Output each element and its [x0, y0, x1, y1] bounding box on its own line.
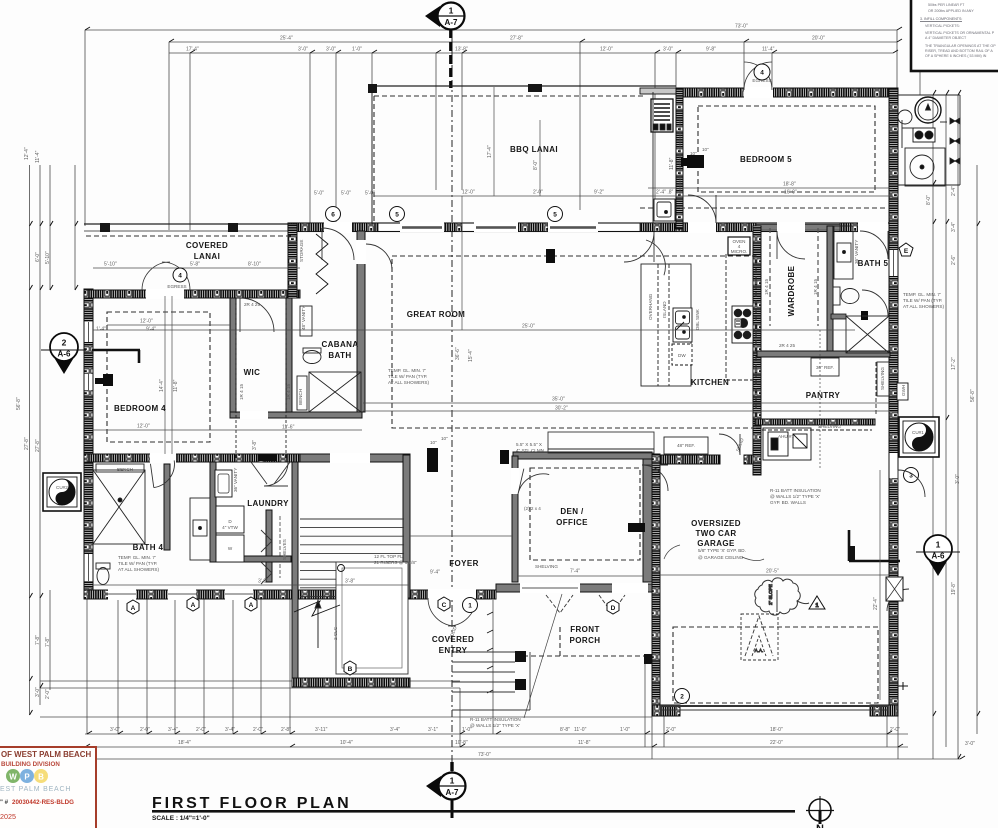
- svg-text:2: 2: [680, 694, 684, 701]
- svg-text:SHELVES: SHELVES: [282, 539, 287, 560]
- bath4 dim: [93, 584, 410, 586]
- section marker 1/A-6 right: [849, 530, 960, 576]
- section marker 1/A-7 top: [425, 3, 465, 30]
- svg-text:4: 4: [760, 70, 764, 77]
- svg-text:12'-0": 12'-0": [140, 319, 153, 325]
- oven/micro cabinet: [728, 237, 750, 255]
- cabana shower: [309, 372, 361, 412]
- storage west wall: [288, 224, 297, 298]
- bath5 bottom wall: [757, 351, 890, 357]
- entry door opening: [428, 589, 476, 600]
- dw: [672, 344, 692, 365]
- mud bench: [548, 432, 654, 453]
- svg-text:8'-8": 8'-8": [560, 727, 570, 733]
- door arc hall2: [637, 240, 672, 275]
- svg-text:6'-0": 6'-0": [35, 252, 41, 262]
- porch door swing V left: [546, 595, 573, 613]
- left exterior wall: [84, 289, 93, 598]
- kitchen verticals: [819, 330, 821, 470]
- door arc den: [518, 469, 549, 500]
- right wall H mark: [898, 685, 908, 687]
- stair newel: [338, 565, 345, 572]
- svg-text:22'-4": 22'-4": [873, 597, 879, 610]
- svg-text:5: 5: [553, 212, 557, 219]
- garage dim 22-4 vertical: [879, 470, 881, 700]
- bedroom5 vert dims: [539, 120, 541, 196]
- covered entry front wall: [410, 590, 496, 599]
- svg-text:11'-4": 11'-4": [762, 47, 775, 53]
- svg-text:E: E: [904, 248, 909, 255]
- bbq lanai post2: [528, 84, 542, 92]
- mech equipment: pool heater: [915, 97, 941, 123]
- svg-text:OR 200lbs APPLIED IN ANY: OR 200lbs APPLIED IN ANY: [928, 9, 974, 13]
- svg-text:4" VTW: 4" VTW: [222, 525, 238, 530]
- svg-text:TEMP. GL. MIN. 7': TEMP. GL. MIN. 7': [118, 555, 156, 560]
- door arc front entry doors: [428, 598, 476, 626]
- bottom dim row3 73-0: [85, 758, 960, 760]
- svg-text:(2) 2 x 4: (2) 2 x 4: [524, 506, 541, 511]
- svg-text:2025: 2025: [0, 812, 16, 821]
- svg-text:3'-11": 3'-11": [315, 727, 328, 733]
- stair treads upper run: [300, 519, 404, 562]
- mid wall opening hall: [330, 453, 370, 463]
- bottom dim row1: [85, 733, 908, 735]
- svg-text:2 CLG: 2 CLG: [333, 626, 338, 640]
- svg-text:12'-0": 12'-0": [600, 47, 613, 53]
- svg-text:A: A: [249, 602, 254, 609]
- svg-text:11'-8": 11'-8": [173, 379, 179, 392]
- hex tag A1: [127, 600, 139, 614]
- garage door header dashed: [673, 627, 878, 703]
- window tag 5a: [390, 207, 405, 222]
- svg-text:11'-8": 11'-8": [578, 740, 591, 746]
- laundry double doors: [251, 462, 290, 484]
- svg-text:10": 10": [441, 436, 448, 441]
- den top wall: [513, 452, 652, 459]
- bedroom4 ceiling: [107, 312, 210, 442]
- svg-text:A 4" DIAMETER OBJECT: A 4" DIAMETER OBJECT: [925, 36, 967, 40]
- svg-text:5: 5: [395, 212, 399, 219]
- mid wall opening bath4 door: [150, 453, 176, 463]
- svg-text:THE TRIANGULAR OPENINGS AT THE: THE TRIANGULAR OPENINGS AT THE OP: [925, 44, 996, 48]
- svg-text:2'-4": 2'-4": [951, 186, 957, 196]
- svg-text:5.5" X 5.5" X: 5.5" X 5.5" X: [516, 442, 542, 447]
- svg-text:56'-8": 56'-8": [16, 397, 22, 410]
- svg-text:30'-2": 30'-2": [555, 406, 568, 412]
- 35-0 line: [363, 402, 890, 404]
- door arc bath5: [860, 231, 888, 259]
- svg-text:2'-0": 2'-0": [196, 727, 206, 733]
- lanai post 2: [228, 223, 238, 232]
- outdoor kitchen back wall: [640, 88, 676, 94]
- wic south wall: [230, 412, 362, 418]
- svg-text:EGRESS: EGRESS: [167, 284, 186, 289]
- bedroom5 top wall: [676, 88, 898, 97]
- laundry tub: [215, 470, 232, 497]
- svg-text:1R 4 15: 1R 4 15: [239, 383, 244, 400]
- cu symbol left: [43, 473, 81, 511]
- revision triangle 1: [809, 596, 825, 609]
- svg-text:1: 1: [468, 603, 472, 610]
- bottom-left exterior wall (bath4): [84, 590, 410, 599]
- svg-text:LAUNDRY: LAUNDRY: [247, 499, 289, 508]
- svg-text:3'-4": 3'-4": [225, 727, 235, 733]
- svg-text:@ WALLS 1/2" TYPE 'X': @ WALLS 1/2" TYPE 'X': [770, 494, 820, 499]
- svg-text:SCALE : 1/4"=1'-0": SCALE : 1/4"=1'-0": [152, 815, 210, 822]
- den right wall: [643, 459, 652, 582]
- svg-text:CABANA: CABANA: [321, 340, 358, 349]
- svg-text:SHELVING: SHELVING: [880, 367, 885, 390]
- svg-text:ISLAND: ISLAND: [662, 301, 667, 318]
- laundry closet shelf dash: [279, 516, 281, 578]
- svg-text:COVERED: COVERED: [186, 241, 228, 250]
- laundry south wall: [216, 556, 291, 562]
- dimension extension verticals top: [85, 30, 920, 759]
- svg-text:11'-4": 11'-4": [35, 150, 41, 163]
- svg-text:7'-8": 7'-8": [35, 635, 41, 645]
- shelving closet right: [877, 362, 889, 396]
- svg-text:48" REF.: 48" REF.: [677, 443, 695, 448]
- mech equipment: pump: [905, 148, 945, 186]
- svg-text:TEMP. GL. MIN. 7': TEMP. GL. MIN. 7': [903, 292, 941, 297]
- svg-text:3'-4": 3'-4": [168, 727, 178, 733]
- svg-text:FRONT: FRONT: [570, 625, 600, 634]
- right wall opening garage door side: [890, 578, 898, 600]
- svg-text:3'-0": 3'-0": [663, 47, 673, 53]
- svg-text:13'-8": 13'-8": [455, 47, 468, 53]
- bedroom5 door arc: [688, 195, 716, 223]
- svg-text:20'-0": 20'-0": [812, 36, 825, 42]
- svg-text:BATH: BATH: [328, 351, 351, 360]
- svg-text:2'-8": 2'-8": [281, 727, 291, 733]
- hex tag B: [344, 661, 356, 675]
- svg-text:DBL SINK: DBL SINK: [695, 308, 700, 330]
- bath4 bench: [96, 464, 144, 472]
- 2/A-6 cut line: [92, 349, 140, 352]
- front porch wall: [496, 584, 652, 592]
- stair arrow: [317, 604, 319, 648]
- svg-text:C: C: [442, 602, 447, 609]
- bath4 shower: [93, 470, 145, 544]
- svg-text:50lbs PER LINEAR FT: 50lbs PER LINEAR FT: [928, 3, 965, 7]
- svg-text:5'-0": 5'-0": [365, 191, 375, 197]
- pantry south wall: [755, 419, 875, 425]
- svg-text:48" VANITY: 48" VANITY: [301, 306, 306, 330]
- garage top wall: [660, 455, 720, 464]
- garage left wall: [652, 454, 660, 716]
- lanai sink: [654, 199, 675, 221]
- covered entry post 2: [515, 679, 526, 690]
- bedroom5 ceiling south dashed: [640, 207, 888, 209]
- svg-text:12 FL TOP FL: 12 FL TOP FL: [374, 554, 403, 559]
- bbq grill: [651, 99, 673, 132]
- porch door swing V right: [599, 595, 625, 613]
- column bedroom4 west: [103, 374, 113, 386]
- svg-text:1'-0": 1'-0": [352, 47, 362, 53]
- svg-text:VERTICAL PICKETS OR ORNAMENTAL: VERTICAL PICKETS OR ORNAMENTAL P: [925, 31, 995, 35]
- porch window opening: [520, 583, 580, 593]
- svg-text:8'-0": 8'-0": [533, 160, 539, 170]
- bath5 vanity: [834, 226, 853, 279]
- svg-text:SOLID: SOLID: [735, 437, 745, 452]
- svg-text:2: 2: [62, 338, 67, 348]
- door tag 1 entry: [463, 598, 478, 613]
- svg-text:4" STL CLMN: 4" STL CLMN: [516, 448, 544, 453]
- garage door line: [660, 705, 888, 707]
- covered lanai top edge: [84, 223, 288, 225]
- door arc wic: [642, 465, 668, 491]
- svg-text:FOYER: FOYER: [449, 559, 479, 568]
- lanai dim extension: [493, 87, 495, 196]
- svg-text:AHU #1: AHU #1: [778, 434, 795, 439]
- svg-text:CU#1: CU#1: [912, 430, 924, 435]
- svg-text:R-11 BATT INSULATION: R-11 BATT INSULATION: [470, 717, 521, 722]
- door arc lanai->house: [142, 262, 190, 290]
- svg-text:BEDROOM 5: BEDROOM 5: [740, 155, 792, 164]
- den door opening: [511, 468, 519, 494]
- door arc cabana: [366, 244, 392, 270]
- svg-text:17'-4": 17'-4": [487, 145, 493, 158]
- svg-text:21 RISERS @ 6 7/8": 21 RISERS @ 6 7/8": [374, 560, 417, 565]
- hall dims: [410, 535, 512, 537]
- mid horizontal wall west (hatched): [84, 454, 300, 462]
- svg-text:GYP. BD. WALLS: GYP. BD. WALLS: [770, 500, 806, 505]
- lanai bottom wall (hatched): [84, 290, 300, 298]
- svg-text:3'-0": 3'-0": [110, 727, 120, 733]
- svg-text:10": 10": [702, 147, 709, 152]
- svg-text:25'-0": 25'-0": [522, 324, 535, 330]
- svg-text:A.A.: A.A.: [755, 648, 764, 653]
- svg-text:@ WALLS 1/2" TYPE 'X': @ WALLS 1/2" TYPE 'X': [470, 723, 520, 728]
- great room ceiling: [392, 256, 756, 428]
- laundry east wall: [266, 510, 272, 582]
- lanai counter: [652, 92, 654, 224]
- wpb logo circles: [6, 769, 20, 783]
- svg-text:6: 6: [331, 212, 335, 219]
- band hatch piers: [288, 223, 326, 232]
- laundry door arc: [264, 462, 288, 486]
- bedroom4 vert dim pair: [164, 296, 166, 454]
- svg-text:DW: DW: [678, 353, 686, 358]
- svg-text:1: 1: [936, 540, 941, 550]
- svg-text:2'-0": 2'-0": [140, 727, 150, 733]
- left dim col2: [39, 165, 41, 705]
- door tag 4 egress: [754, 64, 770, 80]
- svg-text:4: 4: [178, 273, 182, 280]
- svg-text:W: W: [228, 546, 233, 551]
- svg-text:2R 4 25: 2R 4 25: [244, 302, 261, 307]
- left wall window 2: [85, 374, 93, 390]
- svg-text:2'-0": 2'-0": [45, 689, 51, 699]
- svg-text:A-6: A-6: [932, 552, 945, 561]
- svg-text:2" SLOPE: 2" SLOPE: [768, 584, 773, 605]
- svg-text:TILE W/ PAN (TYP.: TILE W/ PAN (TYP.: [903, 298, 942, 303]
- stair treads lower strip: [300, 571, 336, 597]
- door arc egress bedroom5: [744, 62, 772, 90]
- svg-text:COVERED: COVERED: [432, 635, 474, 644]
- lanai bottom door opening: [146, 289, 184, 299]
- bath5 toilet: [841, 289, 859, 304]
- porch ceiling dashed: [523, 655, 648, 657]
- top dim line 73-0: [85, 29, 897, 31]
- window tag 6: [326, 207, 341, 222]
- door arc wardrobe: [777, 231, 805, 259]
- svg-text:3'-0": 3'-0": [35, 687, 41, 697]
- mid horizontal wall stairs: [300, 454, 410, 462]
- lanai top dim: [93, 267, 300, 269]
- svg-text:3'-4": 3'-4": [951, 222, 957, 232]
- lanai post 1: [100, 223, 110, 232]
- cabana east wall / great room west wall: [357, 231, 365, 412]
- svg-text:TILE W/ PAN (TYP.: TILE W/ PAN (TYP.: [118, 561, 157, 566]
- right dim col3: [957, 95, 959, 759]
- svg-text:1: 1: [450, 776, 455, 786]
- svg-text:12'-4": 12'-4": [24, 147, 30, 160]
- kitchen east wall: [753, 226, 761, 475]
- garage bottom wall left block: [652, 705, 680, 716]
- svg-text:1'-0": 1'-0": [620, 727, 630, 733]
- svg-text:56'-8": 56'-8": [970, 389, 976, 402]
- svg-text:11'-0": 11'-0": [574, 727, 587, 733]
- wic shelving: [235, 300, 237, 458]
- kitchen island: [641, 264, 691, 386]
- laundry door header: [258, 454, 276, 461]
- svg-text:2'-6": 2'-6": [951, 255, 957, 265]
- svg-text:OVERHANG: OVERHANG: [648, 293, 653, 320]
- lanai dim line: [374, 195, 648, 197]
- svg-text:36" REF.: 36" REF.: [816, 365, 834, 370]
- door tag 4 lanai: [173, 268, 187, 282]
- bbq lanai post: [368, 84, 377, 93]
- 48 REF garage side: [664, 437, 708, 454]
- svg-text:TEMP. GL. MIN. 7': TEMP. GL. MIN. 7': [388, 368, 426, 373]
- svg-text:ENTRY: ENTRY: [439, 646, 468, 655]
- svg-text:1R 4 15: 1R 4 15: [286, 383, 291, 400]
- right wall opening door 3: [890, 453, 898, 478]
- mech piping: [901, 120, 903, 148]
- right exterior wall: [889, 88, 898, 716]
- bath4 toilet: [97, 568, 109, 585]
- svg-text:12'-0": 12'-0": [137, 424, 150, 430]
- svg-text:A-6: A-6: [58, 350, 71, 359]
- section line A-7 vertical: [451, 35, 453, 773]
- svg-text:14'-4": 14'-4": [159, 379, 165, 392]
- door tag 3 right: [904, 468, 919, 483]
- bath5 shower: [846, 316, 889, 353]
- bbq lanai top edge: [372, 85, 676, 87]
- svg-text:TILE W/ PAN (TYP.: TILE W/ PAN (TYP.: [388, 374, 427, 379]
- svg-text:3'-8": 3'-8": [252, 440, 258, 450]
- svg-text:18'-8": 18'-8": [783, 182, 796, 188]
- svg-text:2'-4" .8": 2'-4" .8": [656, 190, 674, 196]
- pantry 36 REF: [811, 358, 839, 376]
- svg-text:STORAGE: STORAGE: [299, 240, 304, 262]
- bath5 wc wall: [831, 314, 846, 319]
- den ceiling: [530, 468, 640, 560]
- slider doors: [400, 222, 444, 232]
- wic east wall: [286, 298, 292, 412]
- svg-text:12'-0": 12'-0": [462, 190, 475, 196]
- svg-text:8'-10": 8'-10": [248, 262, 261, 268]
- svg-text:5'-0": 5'-0": [341, 191, 351, 197]
- svg-text:A-7: A-7: [445, 18, 458, 27]
- AHU closet: [763, 428, 811, 460]
- svg-text:3'-0": 3'-0": [258, 579, 268, 585]
- svg-text:GWH: GWH: [901, 385, 906, 396]
- right dim col4: [976, 165, 978, 734]
- section marker 1/A-7 bottom: [426, 773, 466, 819]
- porch door opening: [612, 583, 648, 593]
- door arc bath5 wc: [862, 290, 888, 316]
- door arc bedroom4: [240, 298, 274, 332]
- svg-text:VERTICAL PICKETS:: VERTICAL PICKETS:: [925, 24, 960, 28]
- hex tag D: [607, 600, 619, 614]
- svg-text:27'-8": 27'-8": [24, 437, 30, 450]
- GWH box: [897, 383, 908, 400]
- wardrobe rods dashed: [769, 228, 771, 326]
- svg-text:17'-2": 17'-2": [951, 357, 957, 370]
- 1/A-6 cut line: [849, 560, 900, 563]
- svg-text:3. INFILL COMPONENTS:: 3. INFILL COMPONENTS:: [920, 17, 962, 21]
- door6 opening: [324, 222, 352, 233]
- svg-text:10'-4": 10'-4": [340, 740, 353, 746]
- window openings in bottom wall: [108, 589, 136, 600]
- storage shelf zigzag: [316, 234, 328, 294]
- svg-text:5'-10": 5'-10": [104, 262, 117, 268]
- covered entry steps: [452, 652, 530, 710]
- svg-text:2R 4 25: 2R 4 25: [779, 343, 796, 348]
- svg-text:8'-0": 8'-0": [926, 195, 932, 205]
- svg-text:OFFICE: OFFICE: [556, 518, 588, 527]
- cabana north door opening: [356, 240, 366, 264]
- section marker 2/A-6 left: [41, 333, 140, 374]
- bedroom4 dim2: [107, 324, 230, 326]
- svg-text:BATH 4: BATH 4: [133, 543, 164, 552]
- left dim col1: [29, 165, 31, 715]
- bedroom5 ceiling: [698, 106, 875, 192]
- 25-0 great room: [93, 329, 855, 331]
- svg-text:16'-0": 16'-0": [784, 190, 797, 196]
- door arc garage entry: [719, 434, 740, 455]
- svg-text:" #: " #: [0, 799, 9, 806]
- covered lanai ceiling: [86, 235, 294, 237]
- svg-text:15'-4": 15'-4": [468, 349, 474, 362]
- svg-text:1R 4 15: 1R 4 15: [764, 278, 769, 295]
- svg-text:SHELVING: SHELVING: [535, 564, 558, 569]
- wardrobe door opening: [777, 222, 805, 233]
- laundry washer dryer: [216, 506, 244, 533]
- band gray interior wall: [756, 224, 840, 230]
- svg-text:10'-8": 10'-8": [455, 740, 468, 746]
- kitchen counter line: [725, 254, 727, 380]
- svg-text:2'-0": 2'-0": [533, 190, 543, 196]
- door arc storage hall (6): [322, 228, 354, 260]
- svg-text:10": 10": [430, 440, 437, 445]
- svg-text:MICRO.: MICRO.: [731, 249, 748, 254]
- cabana toilet: [303, 351, 321, 364]
- svg-text:1R 4 15: 1R 4 15: [813, 278, 818, 295]
- svg-text:73'-0": 73'-0": [735, 24, 748, 30]
- svg-text:5'-10": 5'-10": [45, 251, 51, 264]
- door arc right porch window: [887, 589, 909, 611]
- svg-text:19'-8": 19'-8": [951, 582, 957, 595]
- svg-text:BENCH: BENCH: [298, 389, 303, 405]
- svg-text:27'-8": 27'-8": [35, 439, 41, 452]
- door tag 2 garage: [675, 689, 690, 704]
- svg-text:A: A: [191, 602, 196, 609]
- svg-text:36'-6": 36'-6": [455, 347, 461, 360]
- svg-text:OF WEST PALM BEACH: OF WEST PALM BEACH: [1, 750, 91, 759]
